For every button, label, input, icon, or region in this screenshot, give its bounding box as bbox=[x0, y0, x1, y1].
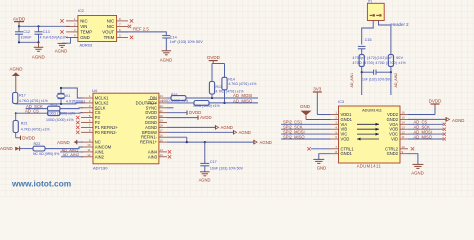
capacitor C14 bbox=[162, 35, 203, 51]
svg-text:14: 14 bbox=[402, 121, 406, 125]
svg-text:GND1: GND1 bbox=[341, 151, 353, 156]
svg-text:4700pF (472)(102)1nF+ 50V: 4700pF (472)(102)1nF+ 50V bbox=[353, 56, 404, 60]
svg-text:10: 10 bbox=[87, 143, 91, 147]
ground GND near GND1 bbox=[300, 104, 312, 120]
connector P1 Header 2 bbox=[367, 0, 384, 21]
capacitor C15 bbox=[358, 38, 372, 54]
svg-text:AIN3: AIN3 bbox=[148, 154, 158, 159]
net label AD_MISO bbox=[233, 98, 253, 103]
power port 3V3 bbox=[313, 87, 322, 96]
wire AD_AIN1 drop bbox=[361, 72, 363, 95]
svg-text:10: 10 bbox=[402, 145, 406, 149]
no-connect X IC3 CTRL1 bbox=[307, 147, 330, 150]
svg-text:R17: R17 bbox=[19, 93, 26, 97]
svg-text:AD_AIN1: AD_AIN1 bbox=[350, 73, 354, 88]
ground AGND under IC3 right bbox=[411, 164, 423, 175]
svg-text:Header 2: Header 2 bbox=[391, 22, 410, 27]
svg-text:AGND: AGND bbox=[55, 49, 67, 54]
svg-text:VOUT: VOUT bbox=[102, 30, 114, 35]
wire SYNC bbox=[167, 107, 174, 109]
power port AVDD bbox=[13, 16, 26, 26]
power port AGND at U4 BPDSW pin bbox=[167, 130, 251, 135]
power port AGND at REFIN1 bbox=[254, 140, 272, 145]
svg-text:17: 17 bbox=[160, 129, 164, 133]
svg-text:18: 18 bbox=[160, 124, 164, 128]
capacitor C17 bbox=[200, 142, 243, 172]
svg-text:AGND: AGND bbox=[221, 125, 233, 130]
svg-text:AGND: AGND bbox=[260, 140, 272, 145]
wire AD_SCK to R15 bbox=[26, 108, 48, 110]
svg-text:R16: R16 bbox=[171, 93, 177, 97]
svg-text:NIC: NIC bbox=[107, 24, 114, 29]
power port DVDD above R13 R14 bbox=[207, 55, 221, 63]
resistor R16 on DIN bbox=[162, 93, 189, 103]
wire R18 to CS bbox=[60, 112, 83, 115]
svg-text:R13: R13 bbox=[216, 85, 222, 89]
svg-text:VIN: VIN bbox=[80, 24, 87, 29]
svg-text:P1: P1 bbox=[368, 0, 372, 3]
svg-text:GND: GND bbox=[317, 166, 327, 171]
svg-text:100Ω (1000) ±1%: 100Ω (1000) ±1% bbox=[193, 104, 220, 108]
svg-text:13: 13 bbox=[402, 125, 406, 129]
wire DIN to AD_MOSI bbox=[186, 97, 258, 99]
ground AGND at IC2 GND pin bbox=[55, 43, 67, 53]
no-connect X IC2 pin5 TRIM bbox=[130, 36, 133, 39]
wire P1 pin1 down-left bbox=[362, 21, 374, 45]
wire R22 to AINCOM bbox=[45, 147, 83, 149]
power port AGND at U4 AGND pin bbox=[167, 125, 233, 130]
net label AD_CS port bbox=[408, 120, 446, 126]
capacitor C12 bbox=[15, 26, 32, 42]
capacitor C13 bbox=[35, 26, 69, 42]
wire VOUT to C14 (net REF 2.5) bbox=[117, 32, 167, 36]
net label AD_MOSI bbox=[233, 93, 252, 98]
svg-text:GND: GND bbox=[300, 104, 311, 109]
svg-text:AIN2: AIN2 bbox=[95, 154, 105, 159]
svg-text:AGND: AGND bbox=[411, 171, 423, 176]
pins IC2 stubs bbox=[66, 21, 128, 38]
svg-text:TRIM: TRIM bbox=[104, 35, 115, 40]
net label AD_AIN1 bbox=[60, 147, 83, 152]
power port DVDD at U4 DVDD pin bbox=[167, 110, 201, 115]
svg-text:C13: C13 bbox=[43, 30, 50, 34]
svg-text:12: 12 bbox=[402, 130, 406, 134]
net label AD_AIN2 vertical bbox=[394, 73, 398, 88]
net label AD_MISO port bbox=[408, 134, 446, 140]
ground AGND under C13 bbox=[32, 47, 46, 59]
svg-text:VOD: VOD bbox=[341, 137, 350, 142]
svg-text:DVDD: DVDD bbox=[22, 135, 36, 140]
svg-text:GND2: GND2 bbox=[387, 151, 399, 156]
svg-text:AGND: AGND bbox=[32, 54, 46, 59]
svg-text:X1: X1 bbox=[66, 94, 71, 98]
wire capacitor ground rail bbox=[18, 41, 40, 47]
wire 3V3 to VDD1 bbox=[317, 96, 330, 115]
resistor R21 bbox=[13, 113, 50, 132]
net label REF 2.5 bbox=[133, 27, 149, 32]
svg-text:NIC: NIC bbox=[107, 19, 114, 24]
power port DVDD at VDD2 bbox=[408, 99, 442, 115]
power port DVDD at R21 bbox=[16, 133, 36, 141]
svg-text:15: 15 bbox=[402, 116, 406, 120]
pins U4 stubs bbox=[81, 98, 167, 157]
no-connect X U4 P0 bbox=[76, 131, 79, 134]
wire AD_CS to R18 bbox=[15, 112, 48, 114]
svg-text:C14: C14 bbox=[170, 35, 177, 39]
resistor R18 bbox=[46, 111, 74, 122]
svg-text:NC 0Ω (0R0) 5%: NC 0Ω (0R0) 5% bbox=[33, 152, 59, 156]
net label SPI2_SCK bbox=[281, 125, 331, 130]
no-connect X IC2 pin1 NIC bbox=[60, 19, 63, 22]
svg-text:14: 14 bbox=[160, 148, 164, 152]
no-connect X U4 P3 bbox=[76, 116, 79, 119]
value labels filter cluster bbox=[353, 56, 406, 65]
resistor R14 bbox=[222, 77, 256, 103]
resistor R22 bbox=[20, 142, 60, 156]
net label AD_AIN1 vertical bbox=[350, 73, 354, 88]
svg-text:AD_CS: AD_CS bbox=[25, 108, 39, 113]
power port AVDD at U4 AVDD pin bbox=[167, 115, 212, 120]
crystal X1 bbox=[57, 88, 86, 104]
svg-text:11: 11 bbox=[402, 135, 405, 139]
net label AD_AIN2 bbox=[61, 152, 83, 157]
svg-text:R14: R14 bbox=[228, 77, 234, 81]
net label AD_MOSI port bbox=[408, 129, 446, 135]
wire DOUT to AD_MISO bbox=[209, 102, 258, 104]
wire AVDD rail to VIN bbox=[18, 25, 70, 27]
resistor R23 left filter bbox=[359, 55, 364, 73]
svg-text:4.7KΩ (4701) ±1%: 4.7KΩ (4701) ±1% bbox=[21, 127, 50, 131]
svg-text:4.7KΩ (4701) ±1%: 4.7KΩ (4701) ±1% bbox=[216, 90, 244, 94]
svg-text:AGND: AGND bbox=[9, 67, 23, 72]
net label AD_SCK bbox=[26, 104, 43, 109]
svg-text:12: 12 bbox=[87, 153, 91, 157]
power port AGND above R17 bbox=[9, 67, 23, 93]
svg-text:ADR03: ADR03 bbox=[80, 43, 93, 48]
svg-text:ADUM1411: ADUM1411 bbox=[362, 107, 382, 112]
svg-text:4.7KΩ (4701) ±1%: 4.7KΩ (4701) ±1% bbox=[19, 99, 48, 103]
svg-text:470Ω (4700) 470Ω (4700) ±1%: 470Ω (4700) 470Ω (4700) ±1% bbox=[353, 61, 406, 65]
svg-text:21: 21 bbox=[160, 109, 164, 113]
no-connect X U4 AIN3 bbox=[168, 155, 171, 158]
svg-text:VID: VID bbox=[391, 137, 398, 142]
svg-text:AVDD: AVDD bbox=[13, 16, 26, 21]
wire REFIN1+ to AGND bbox=[167, 141, 254, 143]
svg-text:R22: R22 bbox=[34, 142, 41, 146]
label Header 2 bbox=[391, 22, 410, 27]
svg-text:IC3: IC3 bbox=[338, 99, 344, 104]
resistor R24 right filter bbox=[388, 55, 393, 73]
resistor R20 on DOUT/RDY bbox=[167, 101, 220, 109]
svg-text:DVDD: DVDD bbox=[429, 99, 443, 104]
no-connect X U4 AIN4 bbox=[168, 150, 171, 153]
svg-text:AGND: AGND bbox=[452, 118, 464, 123]
svg-text:13: 13 bbox=[160, 153, 164, 157]
resistor R15 bbox=[48, 103, 76, 115]
svg-text:TEMP: TEMP bbox=[80, 30, 92, 35]
no-connect X IC2 pin8 NIC bbox=[130, 19, 133, 22]
capacitor C16 1nF bbox=[361, 70, 393, 82]
ground AGND under C17 bbox=[199, 172, 211, 183]
svg-text:16: 16 bbox=[402, 111, 406, 115]
svg-text:19: 19 bbox=[160, 119, 164, 123]
wire P1 pin2 down-right bbox=[379, 21, 391, 55]
net label AD_SCK port bbox=[408, 125, 446, 131]
svg-text:15: 15 bbox=[160, 138, 164, 142]
svg-text:1nF (103) 10% 50V: 1nF (103) 10% 50V bbox=[170, 40, 203, 44]
resistor R13 bbox=[209, 82, 243, 99]
no-connect X IC2 pin3 TEMP bbox=[60, 30, 63, 33]
svg-text:AD_MISO: AD_MISO bbox=[233, 98, 253, 103]
IC U4 AD7190 body bbox=[92, 88, 159, 171]
svg-text:11: 11 bbox=[87, 148, 90, 152]
IC IC3 ADUM1411 body bbox=[338, 99, 400, 168]
svg-text:REF 2.5: REF 2.5 bbox=[133, 27, 149, 32]
pin numbers IC3 bbox=[335, 111, 405, 154]
no-connect X IC3 CTRL2 bbox=[411, 147, 414, 150]
svg-text:U4: U4 bbox=[92, 88, 98, 93]
svg-text:100nF: 100nF bbox=[21, 35, 33, 40]
svg-text:AGND: AGND bbox=[199, 178, 211, 183]
svg-text:24: 24 bbox=[160, 94, 164, 98]
svg-text:REFIN1+: REFIN1+ bbox=[140, 140, 158, 145]
op-amp/regulator IC2 ADR03 body bbox=[78, 8, 117, 48]
net label SPI2_MISO bbox=[281, 134, 331, 139]
svg-text:AGND: AGND bbox=[57, 140, 70, 145]
svg-text:P0 REFIN2-: P0 REFIN2- bbox=[95, 130, 118, 135]
pins IC3 stubs bbox=[331, 115, 409, 154]
svg-text:20: 20 bbox=[160, 114, 164, 118]
resistor R17 bbox=[13, 93, 48, 104]
svg-text:AGND: AGND bbox=[239, 130, 251, 135]
wire DVDD bridge bbox=[212, 64, 225, 82]
no-connect X U4 P1 bbox=[76, 126, 79, 129]
watermark www.iotot.com bbox=[11, 179, 71, 189]
net label SPI2_CS1 bbox=[281, 120, 331, 125]
no-connect X U4 P2 bbox=[76, 121, 79, 124]
svg-text:AD_AIN2: AD_AIN2 bbox=[394, 73, 398, 88]
wire R17 to crystal / MCLK2 bbox=[15, 103, 83, 105]
svg-text:R21: R21 bbox=[21, 122, 28, 126]
wire AD_AIN2 drop bbox=[390, 72, 392, 95]
svg-text:NIC: NIC bbox=[80, 19, 87, 24]
power port AGND at NC pin bbox=[57, 140, 83, 145]
svg-text:www.iotot.com: www.iotot.com bbox=[11, 179, 71, 189]
wire crystal to MCLK1 bbox=[60, 87, 83, 98]
no-connect X IC2 pin7 NIC bbox=[128, 25, 131, 28]
svg-text:AD7190: AD7190 bbox=[93, 166, 108, 171]
svg-text:10nF (103) 10% 50V: 10nF (103) 10% 50V bbox=[210, 166, 244, 170]
svg-text:100Ω (1000) ±1%: 100Ω (1000) ±1% bbox=[46, 118, 74, 122]
wire IC2 GND to ground bbox=[62, 37, 78, 43]
svg-text:16: 16 bbox=[160, 133, 164, 137]
svg-text:DVDD: DVDD bbox=[207, 55, 221, 60]
svg-text:C12: C12 bbox=[23, 30, 30, 34]
wire GND2 bottom to AGND bbox=[408, 154, 418, 165]
svg-text:GND: GND bbox=[80, 35, 90, 40]
svg-text:C15: C15 bbox=[365, 38, 372, 42]
power port AGND left of R22 bbox=[0, 146, 20, 151]
svg-text:ADUM1411: ADUM1411 bbox=[357, 163, 382, 168]
svg-text:22: 22 bbox=[160, 104, 164, 108]
svg-text:1nF (102) 10% 50V: 1nF (102) 10% 50V bbox=[362, 77, 392, 81]
svg-text:IC2: IC2 bbox=[78, 8, 84, 13]
svg-text:AGND: AGND bbox=[160, 57, 172, 62]
wire GND1 bottom to ground bbox=[319, 154, 331, 160]
ground GND under IC3 bbox=[313, 159, 326, 170]
ground AGND under C14 bbox=[160, 51, 172, 63]
svg-text:R15: R15 bbox=[51, 103, 57, 107]
svg-text:3V3: 3V3 bbox=[313, 87, 322, 92]
svg-text:4.7uF/16V(A)10%: 4.7uF/16V(A)10% bbox=[40, 36, 69, 40]
pin numbers IC2 bbox=[74, 17, 121, 38]
svg-text:AGND: AGND bbox=[0, 146, 13, 151]
wire GND1 to ground bbox=[306, 119, 331, 121]
pin numbers U4 bbox=[87, 94, 163, 157]
wire R15 to SCLK bbox=[60, 107, 83, 110]
wire REFIN1- jog down bbox=[167, 137, 187, 142]
power port AGND at GND2 bbox=[408, 117, 464, 123]
svg-text:4.7KΩ (4701) ±1%: 4.7KΩ (4701) ±1% bbox=[228, 82, 256, 86]
net label AD_CS bbox=[25, 108, 39, 113]
net label SPI2_MOSI bbox=[281, 129, 331, 134]
svg-text:AVDD: AVDD bbox=[200, 115, 212, 120]
svg-text:C17: C17 bbox=[210, 160, 217, 164]
